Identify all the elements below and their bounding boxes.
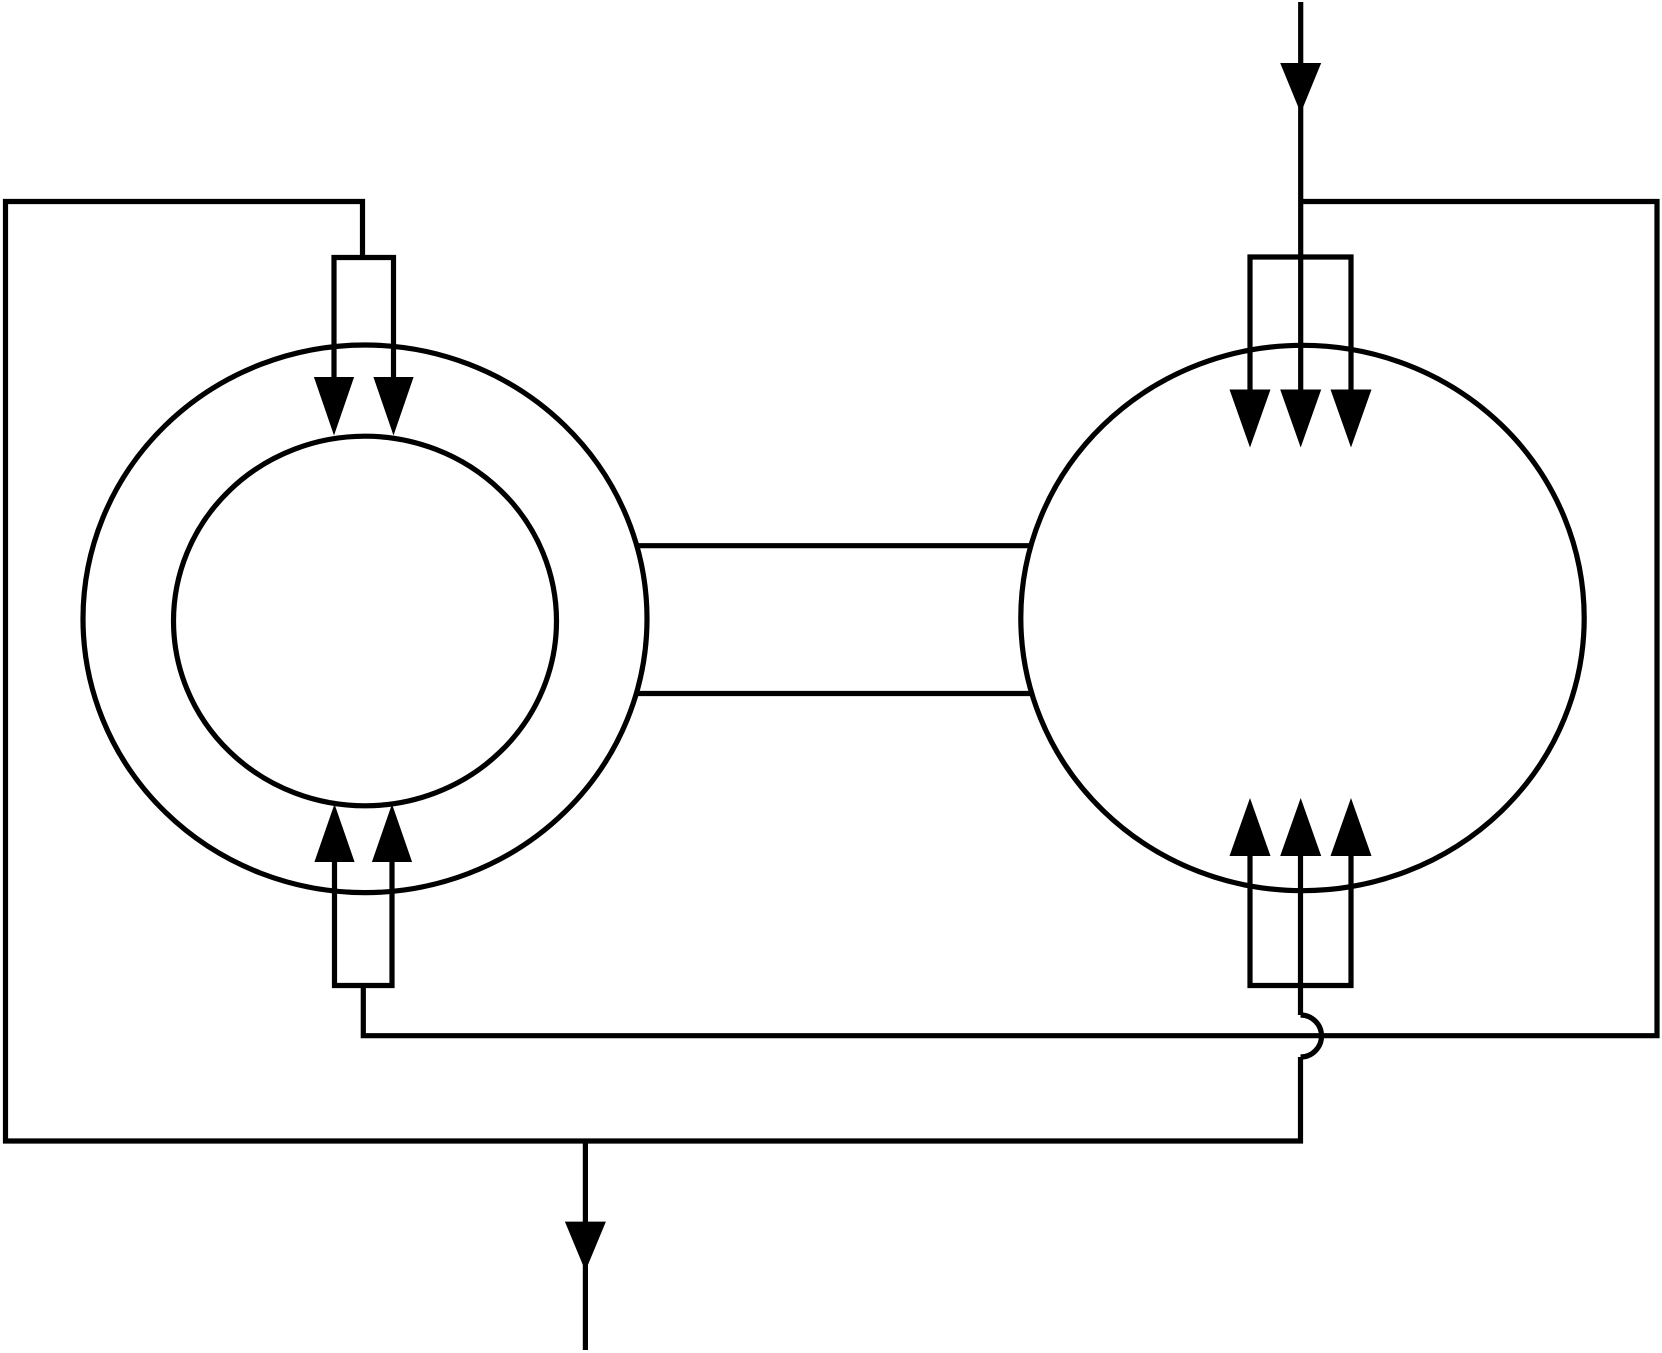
wire upper channel line [637, 543, 1031, 548]
arrowhead left-top-2 [373, 377, 413, 436]
arrowhead left-bottom-1 [314, 804, 354, 862]
arrowhead right-bottom-3 [1331, 798, 1372, 856]
left torus inner circle [174, 436, 557, 806]
arrowhead right-bottom-1 [1230, 798, 1271, 856]
left torus outer circle [83, 345, 647, 893]
right circle [1021, 345, 1584, 890]
right top port box [1250, 257, 1351, 390]
arrowhead right-top-3 [1331, 390, 1372, 448]
arrowhead output bottom [565, 1222, 606, 1271]
arrowhead input top [1280, 63, 1321, 113]
wire hop (jump over) at node X [1301, 1015, 1322, 1057]
left bottom port box [335, 862, 393, 986]
arrowhead right-bottom-2 [1280, 798, 1321, 856]
wire output line bottom [583, 1141, 588, 1350]
wire right bottom center line to hop [1298, 856, 1303, 1015]
wire lower channel line [636, 691, 1032, 696]
arrowhead left-top-1 [314, 377, 354, 436]
arrowhead right-top-2 [1280, 390, 1321, 448]
arrowhead left-bottom-2 [372, 804, 412, 862]
left top port box [334, 258, 394, 381]
right bottom port box [1250, 856, 1351, 986]
wire input line top [1298, 2, 1303, 390]
wire left enclosure frame [6, 202, 1301, 1142]
arrowhead right-top-1 [1230, 390, 1271, 448]
wire right enclosure frame [363, 202, 1657, 1036]
